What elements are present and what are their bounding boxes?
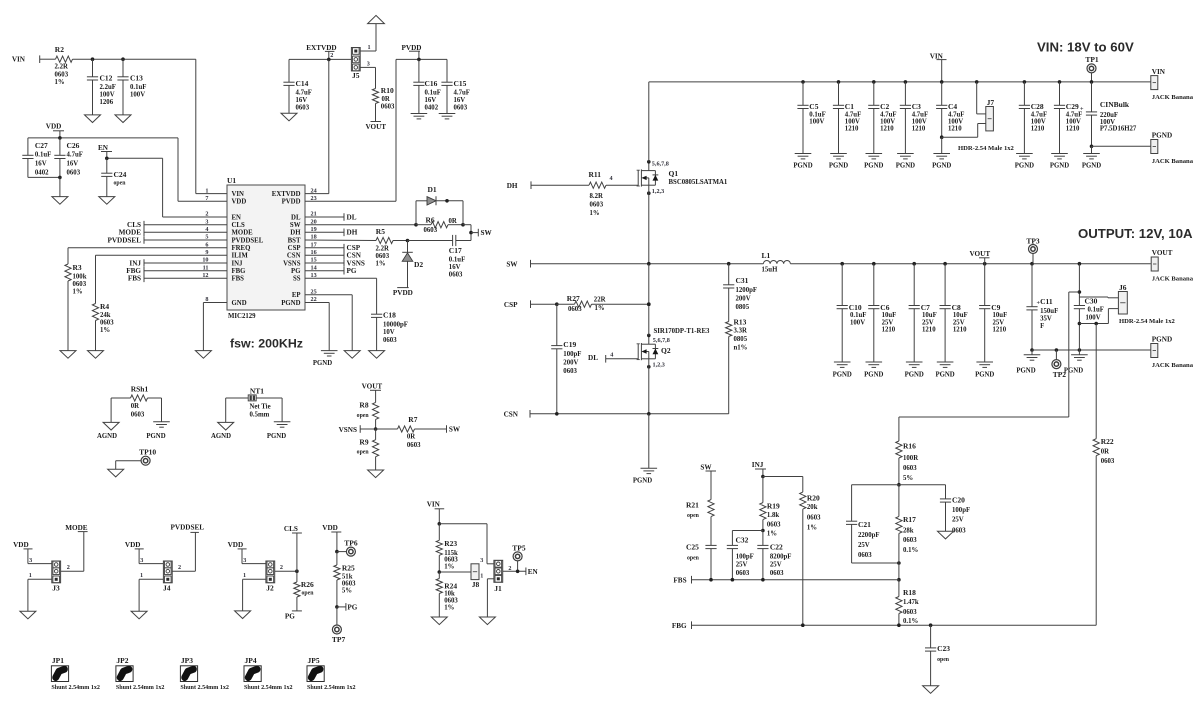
svg-text:0.1uF: 0.1uF [449,256,465,263]
node FBG stub at U1 [144,270,227,272]
svg-text:PGND: PGND [1152,132,1172,140]
svg-text:1%: 1% [595,305,605,312]
resistor R16 [896,441,902,458]
svg-text:0603: 0603 [55,71,69,78]
svg-text:SW: SW [449,426,461,434]
svg-text:EN: EN [98,144,109,152]
svg-text:R2: R2 [55,45,64,54]
ground [479,617,495,625]
svg-text:PGND: PGND [932,162,951,169]
svg-text:100V: 100V [1031,119,1046,126]
svg-text:C9: C9 [991,303,1000,312]
node FBS stub at U1 [144,277,227,279]
svg-text:MODE: MODE [232,230,254,237]
svg-text:J1: J1 [494,584,502,593]
svg-text:INJ: INJ [232,260,244,267]
wire VDD to J2 pin3 [242,563,266,565]
capacitor C28 [1023,80,1027,84]
connector VOUT JACK Banana [1151,257,1158,271]
svg-text:AGND: AGND [97,433,117,440]
svg-text:7: 7 [205,195,208,202]
svg-text:R13: R13 [734,317,747,326]
connector J6 [1118,292,1127,315]
capacitor C2 [872,80,876,84]
svg-text:1%: 1% [590,210,600,217]
capacitor C3 [904,80,908,84]
svg-text:Q2: Q2 [661,346,671,355]
svg-text:16V: 16V [296,97,308,104]
ground PGND [153,421,170,423]
svg-text:PVDDSEL: PVDDSEL [107,236,141,244]
resistor R7 [376,428,398,430]
svg-text:C30: C30 [1085,296,1098,305]
svg-text:JACK Banana: JACK Banana [1152,275,1194,282]
svg-text:J8: J8 [472,580,480,589]
svg-text:D1: D1 [428,185,437,194]
ground PGND [1051,153,1068,155]
svg-text:5,6,7,8: 5,6,7,8 [652,161,669,168]
svg-text:C4: C4 [948,102,957,111]
ground PGND [1031,350,1033,355]
svg-text:0603: 0603 [563,368,577,375]
ground [923,686,939,694]
node VSNS stub at U1 [305,262,344,264]
svg-text:0603: 0603 [444,597,458,604]
ground [439,113,456,115]
test point TP2 [1055,350,1057,360]
svg-text:51k: 51k [342,573,353,580]
node DL stub at U1 [305,216,344,218]
svg-text:C1: C1 [845,102,854,111]
svg-text:0.1uF: 0.1uF [425,89,441,96]
svg-text:3: 3 [243,557,246,564]
svg-text:TP6: TP6 [344,539,358,548]
svg-text:SW: SW [700,463,712,471]
capacitor C31 [728,264,730,285]
svg-text:0603: 0603 [454,105,468,112]
svg-text:0603: 0603 [67,170,81,177]
wire SW node [531,263,764,265]
svg-text:C28: C28 [1031,102,1044,111]
svg-text:PGND: PGND [833,372,852,379]
node EN stub [503,570,526,572]
svg-text:MODE: MODE [65,524,88,532]
power arrow EXTVDD jumper pin1 [360,50,376,52]
svg-text:2: 2 [330,52,333,59]
svg-text:100pF: 100pF [952,507,970,514]
svg-text:100V: 100V [1066,119,1081,126]
svg-text:0603: 0603 [1101,458,1115,465]
svg-text:4.7uF: 4.7uF [454,89,470,96]
svg-text:open: open [687,513,700,519]
svg-text:SW: SW [481,229,493,237]
svg-text:R17: R17 [903,515,916,524]
resistor R20 [800,492,806,509]
ground PGND [1078,350,1080,355]
svg-text:0603: 0603 [903,537,917,544]
svg-text:C15: C15 [454,79,467,88]
capacitor C12 [92,59,94,77]
resistor R3 [68,247,227,249]
svg-text:HDR-2.54 Male 1x2: HDR-2.54 Male 1x2 [1119,318,1176,325]
capacitor C6 [873,264,875,306]
svg-text:J2: J2 [266,584,274,593]
svg-text:PGND: PGND [864,372,883,379]
svg-text:R6: R6 [426,215,435,224]
connector VIN JACK Banana [1150,81,1152,83]
resistor R26 (open) [296,571,298,582]
svg-text:22R: 22R [594,297,606,304]
svg-text:3: 3 [367,61,370,68]
svg-text:0R: 0R [382,96,390,103]
wire FBS net [692,579,899,581]
svg-text:PGND: PGND [146,433,165,440]
ground [195,351,211,359]
svg-text:CSP: CSP [504,301,518,309]
svg-text:100V: 100V [130,92,145,99]
svg-text:0.5mm: 0.5mm [250,412,270,419]
svg-text:JP5: JP5 [308,656,320,665]
svg-text:C8: C8 [952,303,961,312]
svg-text:GND: GND [232,300,247,307]
test point TP5 [513,552,522,561]
svg-text:4.7uF: 4.7uF [845,112,861,119]
svg-text:fsw: 200KHz: fsw: 200KHz [230,337,303,351]
wire compensation node [852,484,946,486]
svg-text:DL: DL [588,354,598,362]
ground AGND [218,422,234,430]
svg-text:PGND: PGND [1050,162,1069,169]
svg-text:0603: 0603 [568,306,582,313]
svg-text:PGND: PGND [1152,336,1172,344]
svg-text:FBS: FBS [128,275,141,283]
node MODE stub at U1 [144,231,227,233]
wire C30 bottom to J6 pin2 [1079,323,1108,325]
svg-text:100V: 100V [845,119,860,126]
capacitor C8 [944,264,946,306]
svg-text:J3: J3 [52,584,60,593]
svg-text:R20: R20 [807,493,820,502]
wire R16 feed [899,416,1069,418]
svg-text:3.3R: 3.3R [734,328,747,335]
svg-text:VOUT: VOUT [970,250,991,258]
svg-text:FREQ: FREQ [232,245,251,252]
svg-text:10V: 10V [383,329,395,336]
ground PGND [933,153,950,155]
resistor R17 [898,485,900,517]
svg-text:C23: C23 [937,644,950,653]
svg-text:SW: SW [290,222,301,229]
wire Q1 source to SW node [648,193,650,264]
svg-text:0603: 0603 [100,320,114,327]
resistor R27 [557,303,575,305]
svg-text:VOUT: VOUT [362,382,383,390]
svg-text:2.2R: 2.2R [55,64,68,71]
node INJ stub at U1 [144,262,227,264]
svg-text:1210: 1210 [953,327,967,334]
resistor R24 [438,572,440,579]
wire R22 feed [1095,324,1097,439]
svg-text:0603: 0603 [131,412,145,419]
wire J1 pin1 to ground [487,578,494,580]
svg-text:16V: 16V [425,97,437,104]
ground [85,115,101,123]
svg-text:100k: 100k [73,273,87,280]
test point TP7 [336,607,338,625]
wire PVDD net [396,58,447,60]
svg-text:5%: 5% [342,587,352,594]
svg-text:FBS: FBS [673,576,686,584]
svg-text:16V: 16V [35,161,47,168]
svg-text:CLS: CLS [232,222,245,229]
svg-text:PGND: PGND [793,162,812,169]
svg-text:0603: 0603 [73,281,87,288]
svg-text:PGND: PGND [1016,367,1035,374]
svg-text:CINBulk: CINBulk [1100,100,1130,109]
svg-text:0603: 0603 [383,337,397,344]
svg-text:VDD: VDD [232,199,247,206]
svg-text:5%: 5% [903,475,913,482]
svg-text:1210: 1210 [948,126,962,133]
svg-text:1210: 1210 [912,126,926,133]
wire CSN net [530,413,729,415]
svg-text:0603: 0603 [381,104,395,111]
wire Q1 drain to VIN rail [648,82,650,162]
svg-text:1%: 1% [767,531,777,538]
ground PGND [866,361,883,363]
svg-text:JACK Banana: JACK Banana [1152,158,1194,165]
svg-text:28k: 28k [903,528,914,535]
svg-text:20k: 20k [807,504,818,511]
svg-text:4.7uF: 4.7uF [296,89,312,96]
svg-text:VOUT: VOUT [1152,249,1173,257]
svg-text:0603: 0603 [903,609,917,616]
resistor R4 [96,254,228,256]
svg-text:EXTVDD: EXTVDD [306,44,336,52]
svg-text:200V: 200V [736,296,751,303]
svg-text:1210: 1210 [845,126,859,133]
svg-text:C21: C21 [858,520,871,529]
svg-text:VIN: VIN [232,191,245,198]
svg-text:3: 3 [29,557,32,564]
svg-text:C12: C12 [100,74,113,83]
svg-text:PGND: PGND [267,433,286,440]
connector J8 [438,570,442,574]
node CSN stub at U1 [305,254,344,256]
svg-text:10uF: 10uF [953,312,968,319]
svg-text:C20: C20 [952,495,965,504]
svg-text:25V: 25V [993,319,1005,326]
svg-text:PGND: PGND [1015,162,1034,169]
svg-text:VDD: VDD [228,541,244,549]
svg-text:100V: 100V [850,319,865,326]
node PG stub [335,605,339,609]
svg-text:1: 1 [368,44,371,51]
svg-text:Shunt 2.54mm 1x2: Shunt 2.54mm 1x2 [51,685,100,691]
svg-text:OUTPUT: 12V, 10A: OUTPUT: 12V, 10A [1078,226,1193,241]
svg-text:R23: R23 [444,539,457,548]
svg-text:PGND: PGND [935,372,954,379]
svg-text:1210: 1210 [882,327,896,334]
svg-text:0R: 0R [449,218,457,225]
capacitor C17 [406,239,410,243]
svg-text:2: 2 [67,564,70,571]
capacitor C5 [801,80,805,84]
svg-text:C22: C22 [770,543,783,552]
wire RSh1 to PGND [161,398,163,422]
ground [368,470,384,478]
svg-text:C16: C16 [425,79,438,88]
svg-text:F: F [1040,323,1044,330]
svg-text:open: open [357,450,370,456]
capacitor C27 [27,138,29,155]
node DH stub at U1 [305,231,344,233]
svg-text:PGND: PGND [313,360,332,367]
capacitor C11 (polarized) [1031,264,1033,307]
svg-text:R18: R18 [903,588,916,597]
ground [52,197,68,205]
connector J2 [266,561,275,583]
svg-text:25V: 25V [922,319,934,326]
svg-text:4: 4 [610,175,613,182]
ground PGND [830,153,847,155]
svg-text:open: open [687,555,700,561]
svg-text:PG: PG [285,613,295,621]
svg-text:JP2: JP2 [116,656,128,665]
ground [369,351,385,359]
svg-text:16V: 16V [67,161,79,168]
svg-text:PGND: PGND [281,300,300,307]
capacitor C18 [305,277,377,279]
svg-text:0.1uF: 0.1uF [850,312,866,319]
ground [938,531,954,539]
capacitor CINBulk [1091,82,1093,112]
svg-text:10000pF: 10000pF [383,321,408,328]
svg-text:2: 2 [280,564,283,571]
wire U1 EP pin25 to ground [305,294,352,296]
svg-text:1,2,3: 1,2,3 [653,361,665,368]
resistor R2 [40,58,56,60]
transistor Q1 BSC0805LSATMA1 [637,170,639,186]
svg-text:1.8k: 1.8k [767,512,779,519]
svg-text:J5: J5 [352,71,360,80]
svg-text:100V: 100V [912,119,927,126]
svg-text:25V: 25V [953,319,965,326]
ground PGND [1083,153,1100,155]
svg-text:0603: 0603 [858,552,872,559]
svg-text:PGND: PGND [633,478,652,485]
wire VIN net to U1 pin1 [93,58,196,60]
svg-text:1%: 1% [100,327,110,334]
svg-text:C3: C3 [912,102,921,111]
ground [431,617,447,625]
svg-text:C5: C5 [809,102,818,111]
ground [235,611,251,619]
svg-text:PG: PG [347,267,357,275]
svg-text:PGND: PGND [829,162,848,169]
svg-text:16V: 16V [454,97,466,104]
svg-text:0R: 0R [407,434,415,441]
capacitor C9 [984,264,986,306]
svg-text:1: 1 [243,572,246,579]
svg-text:24k: 24k [100,312,111,319]
svg-text:3: 3 [480,557,483,564]
svg-text:open: open [937,657,950,663]
svg-text:CSN: CSN [287,253,301,260]
svg-text:0805: 0805 [736,304,750,311]
svg-text:PG: PG [291,268,301,275]
capacitor C13 [122,59,124,77]
svg-text:5,6,7,8: 5,6,7,8 [653,337,670,344]
svg-text:JP3: JP3 [181,656,193,665]
svg-text:100R: 100R [903,455,918,462]
svg-text:100V: 100V [1086,314,1101,321]
svg-text:1210: 1210 [880,126,894,133]
svg-text:25V: 25V [952,517,964,524]
svg-text:3: 3 [140,557,143,564]
svg-text:JACK Banana: JACK Banana [1152,362,1194,369]
svg-text:100V: 100V [100,92,115,99]
svg-text:C11: C11 [1040,297,1053,306]
ground PGND [1016,153,1033,155]
svg-text:0603: 0603 [770,570,784,577]
svg-text:DL: DL [347,213,357,221]
test point TP1 [1087,64,1096,73]
connector PGND JACK Banana [1151,140,1158,154]
wire Q2 source to CSN [648,367,650,414]
svg-text:2.2R: 2.2R [376,245,389,252]
svg-text:+: + [1080,106,1084,113]
svg-text:0805: 0805 [734,336,748,343]
svg-text:D2: D2 [414,260,423,269]
net label CLS (J2) [275,570,297,572]
svg-text:VDD: VDD [13,541,29,549]
wire U1 PGND pin22 to ground [305,302,329,304]
svg-text:1210: 1210 [993,327,1007,334]
svg-text:R9: R9 [359,438,368,447]
ground PGND [897,153,914,155]
connector J4 [163,561,172,583]
capacitor C23 (open) [930,625,932,648]
svg-text:TP1: TP1 [1085,55,1099,64]
svg-text:C25: C25 [686,543,699,552]
test point TP3 [1029,245,1038,254]
ground PGND [937,361,954,363]
svg-text:RSh1: RSh1 [131,385,149,394]
svg-text:100pF: 100pF [563,351,581,358]
svg-text:0.1uF: 0.1uF [130,84,146,91]
svg-text:1.47k: 1.47k [903,599,919,606]
svg-text:VOUT: VOUT [365,123,386,131]
wire VIN rail [649,81,1151,83]
svg-text:DH: DH [347,229,358,237]
wire VDD to J4 pin3 [139,563,163,565]
svg-text:PGND: PGND [896,162,915,169]
capacitor C25 (open) [705,544,716,546]
svg-text:BST: BST [288,237,301,244]
wire U1 SW pin20 [305,224,416,226]
svg-text:C26: C26 [67,141,80,150]
wire EN net to U1 pin2 [107,157,163,159]
svg-text:10uF: 10uF [922,312,937,319]
connector J5 [351,48,360,71]
capacitor C26 [59,138,61,155]
wire EXTVDD net [289,58,351,60]
svg-text:1%: 1% [807,524,817,531]
svg-text:100V: 100V [880,119,895,126]
svg-text:R4: R4 [100,302,109,311]
ground PGND [976,361,993,363]
